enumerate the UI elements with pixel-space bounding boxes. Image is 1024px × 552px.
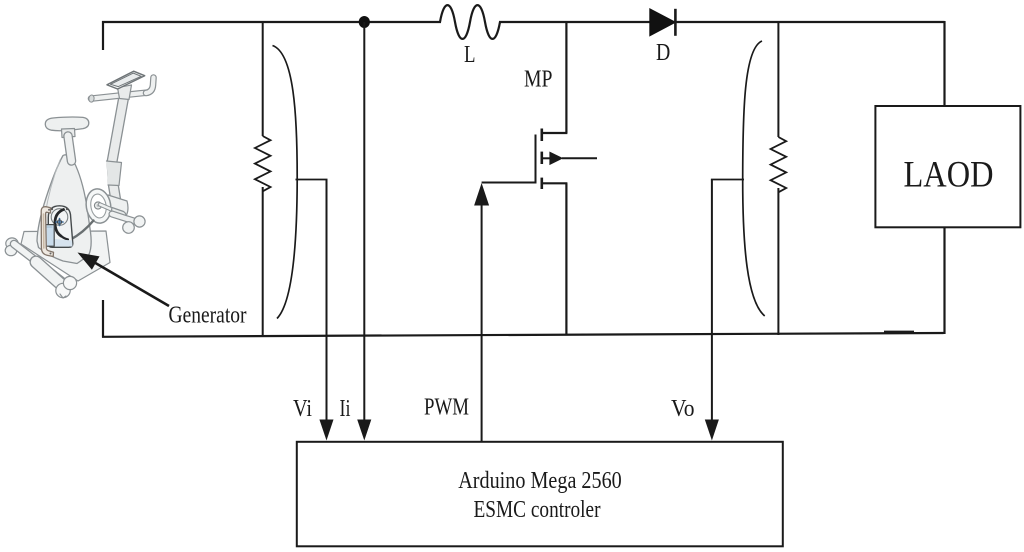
wire MOSFET drain vertical: [565, 21, 567, 133]
svg-text:LAOD: LAOD: [904, 154, 994, 195]
wire Vi tap horizontal: [296, 179, 328, 181]
arrow PWM head (up): [474, 183, 489, 206]
svg-text:Ii: Ii: [340, 396, 351, 422]
svg-text:Generator: Generator: [169, 303, 247, 329]
wire branch R1 top: [262, 21, 264, 136]
wire left stub top: [102, 21, 104, 50]
svg-text:L: L: [464, 42, 476, 68]
capacitor C1 arc: [273, 46, 298, 319]
svg-text:Vi: Vi: [293, 396, 312, 422]
resistor R2: [771, 137, 787, 192]
body arrow: [549, 152, 563, 166]
channel segment 2: [540, 152, 543, 164]
Arduino box: [297, 442, 783, 547]
generator image (exercise bike): [5, 71, 153, 298]
flywheel: [84, 187, 113, 225]
LAOD box: [875, 106, 1020, 227]
pedal arm: [100, 205, 114, 211]
gate bar: [535, 135, 537, 184]
wire Vo tap horizontal: [711, 179, 744, 181]
base beam: [14, 244, 62, 281]
channel segment 1: [540, 129, 543, 142]
generator blue cover: [42, 225, 54, 247]
svg-text:PWM: PWM: [424, 395, 469, 421]
wire branch R2 top: [777, 21, 779, 137]
wire Ii vertical: [363, 22, 365, 429]
wire branch R1 bottom: [262, 187, 264, 336]
wire gate horizontal: [482, 182, 536, 184]
generator belt hook: [55, 210, 64, 237]
arrow Vo head: [705, 420, 719, 441]
wire MOSFET source vertical: [565, 183, 567, 335]
wire top rail right of inductor: [499, 21, 945, 23]
main frame wedge: [37, 155, 91, 264]
pedal: [112, 208, 126, 218]
wire Vi vertical: [326, 180, 328, 430]
svg-text:ESMC controler: ESMC controler: [474, 497, 601, 523]
console neck: [118, 85, 132, 100]
rear wheels: [56, 283, 70, 297]
wire top rail: [102, 21, 441, 23]
wire PWM vertical: [481, 200, 483, 442]
wire bottom rail doubled segment: [884, 331, 914, 333]
rear foot tube: [36, 262, 64, 287]
small screw details: [48, 209, 50, 211]
resistor R1: [255, 136, 271, 191]
floor panel: [21, 231, 110, 281]
seat post: [62, 129, 76, 138]
generator blue tint bottom: [50, 239, 73, 247]
arrow Vi head: [319, 420, 333, 441]
channel segment 3: [540, 178, 543, 189]
source stub: [542, 182, 568, 184]
node junction dot: [359, 16, 370, 28]
svg-text:D: D: [656, 40, 670, 66]
handlebar right hook: [146, 78, 154, 94]
left foot pad: [6, 238, 18, 249]
inductor L: [440, 5, 500, 39]
handlebar bar: [91, 93, 147, 99]
wire branch R2 bottom: [777, 188, 779, 335]
body stub: [542, 157, 550, 159]
wire right vertical top: [943, 21, 945, 107]
svg-text:Arduino Mega 2560: Arduino Mega 2560: [458, 468, 622, 494]
console screen: [107, 71, 145, 89]
generator bracket: [41, 207, 53, 257]
generator housing: [48, 206, 73, 248]
bottom bracket: [106, 195, 128, 219]
drain stub: [542, 132, 568, 134]
generator hub detail: [56, 219, 63, 226]
handlebar stem: [112, 99, 124, 209]
seat: [45, 117, 89, 131]
body line: [562, 157, 597, 159]
arrow to generator: [78, 253, 170, 307]
left grip cap: [88, 95, 94, 103]
wire left stub bottom: [102, 300, 104, 338]
transistor MP: [536, 129, 598, 190]
wire right vertical bottom: [943, 227, 945, 334]
svg-text:MP: MP: [524, 67, 553, 93]
wire bottom rail: [102, 333, 944, 337]
frame inner line: [43, 160, 60, 246]
diode D: [650, 9, 676, 36]
arrow Ii head: [357, 420, 371, 441]
front stabilizer: [112, 214, 137, 222]
svg-text:Vo: Vo: [671, 396, 695, 422]
capacitor C2 arc: [743, 41, 765, 316]
belt: [71, 221, 94, 240]
wire Vo vertical: [711, 180, 713, 430]
